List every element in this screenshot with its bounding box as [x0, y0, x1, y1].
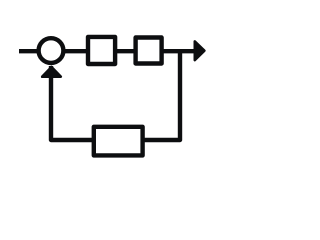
summing junction: [39, 38, 64, 63]
arrowhead into summing junction: [42, 67, 61, 77]
block G1: [88, 37, 115, 64]
wire: feedback loop (down from summing node, bottom rail, up to tap): [51, 51, 180, 140]
block G2: [136, 38, 162, 64]
output arrowhead: [195, 41, 205, 60]
wire: input and forward-path rail: [19, 49, 195, 53]
feedback block H: [94, 127, 143, 156]
